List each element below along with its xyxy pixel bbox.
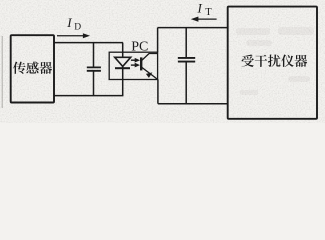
wire: LED cathode lead bbox=[122, 66, 124, 95]
paper background bbox=[0, 0, 325, 123]
capacitor C1 plates bbox=[87, 67, 101, 70]
wire: sensor bottom return bbox=[54, 95, 123, 97]
current arrow I_D bbox=[57, 35, 84, 37]
text 仪 instrument label char 4 bbox=[281, 55, 294, 67]
text 扰 instrument label char 3 bbox=[268, 55, 281, 67]
instrument block box 受干扰仪器 bbox=[228, 7, 317, 119]
text 传 sensor label char 1 bbox=[13, 62, 26, 74]
phototransistor base bar bbox=[140, 57, 142, 70]
wire: collector riser bbox=[157, 28, 159, 53]
sensor block box 传感器 bbox=[11, 35, 54, 102]
light emission arrow 2 bbox=[131, 64, 135, 66]
text 受 instrument label char 1 bbox=[242, 55, 254, 67]
LED diode triangle bbox=[115, 57, 131, 66]
svg-text:T: T bbox=[205, 7, 212, 18]
svg-text:D: D bbox=[74, 23, 81, 33]
wire: LED anode lead bbox=[122, 43, 124, 58]
wire: emitter drop bbox=[157, 80, 159, 104]
capacitor C1 bottom lead bbox=[93, 71, 95, 96]
text 感 sensor label char 2 bbox=[26, 62, 38, 74]
capacitor C2 top lead bbox=[185, 28, 187, 58]
capacitor C2 bottom lead bbox=[185, 62, 187, 104]
svg-text:PC: PC bbox=[131, 39, 148, 54]
text 器 sensor label char 3 bbox=[39, 62, 52, 74]
text 器 instrument label char 5 bbox=[295, 55, 308, 67]
LED cathode bar bbox=[115, 67, 130, 69]
light emission arrow 1 bbox=[131, 59, 135, 61]
svg-text:I: I bbox=[66, 15, 72, 30]
scan artifact faint vertical line at left edge bbox=[1, 36, 3, 108]
optocoupler package outline PC bbox=[109, 52, 157, 79]
text 干 instrument label char 2 bbox=[255, 55, 267, 67]
phototransistor collector bbox=[141, 54, 157, 61]
current arrow I_T bbox=[197, 18, 217, 20]
svg-text:I: I bbox=[197, 1, 203, 16]
wire: bottom return to instrument bbox=[158, 103, 228, 105]
wire: sensor top output bbox=[54, 42, 123, 44]
capacitor C2 plates bbox=[178, 58, 195, 62]
phototransistor emitter with arrow bbox=[141, 67, 158, 80]
capacitor C1 top lead bbox=[93, 43, 95, 67]
faint page bleed-through smudges (scan artifact) bbox=[236, 27, 314, 95]
wire: top feed to instrument bbox=[158, 27, 228, 29]
